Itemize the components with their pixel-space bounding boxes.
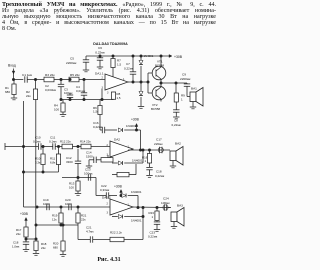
- svg-text:1,0мк: 1,0мк: [12, 244, 20, 248]
- wire bias left: [26, 238, 36, 240]
- svg-text:2: 2: [107, 202, 109, 205]
- svg-text:1: 1: [181, 98, 183, 102]
- svg-text:C24: C24: [163, 197, 169, 201]
- svg-text:+30В: +30В: [174, 55, 183, 59]
- svg-text:+30В: +30В: [131, 118, 140, 122]
- svg-text:0,33мк: 0,33мк: [100, 188, 110, 192]
- svg-text:3,3к: 3,3к: [35, 160, 41, 164]
- wire DA1 output: [128, 81, 148, 83]
- ground: [171, 226, 177, 228]
- svg-text:BA2: BA2: [175, 142, 181, 146]
- capacitor C23 0,22мк: [154, 221, 160, 223]
- svg-text:2: 2: [102, 76, 104, 79]
- svg-text:0,1мк: 0,1мк: [33, 140, 41, 144]
- wire feedback row DA1: [61, 99, 114, 101]
- resistor R9 1: [175, 83, 177, 93]
- svg-text:0,033мк: 0,033мк: [45, 88, 57, 92]
- svg-text:680: 680: [5, 90, 10, 94]
- svg-text:ВС558: ВС558: [151, 107, 160, 111]
- svg-text:0,22мк: 0,22мк: [95, 50, 105, 54]
- svg-text:Вход: Вход: [8, 64, 16, 68]
- wire ch3 input: [24, 206, 111, 208]
- svg-text:22к: 22к: [16, 232, 21, 236]
- svg-text:100: 100: [54, 108, 59, 112]
- svg-text:680: 680: [53, 245, 58, 249]
- svg-text:R3 22к: R3 22к: [45, 73, 55, 77]
- svg-text:6,8к: 6,8к: [50, 160, 56, 164]
- wire to DA2 output: [140, 130, 142, 150]
- svg-text:22к: 22к: [81, 217, 86, 221]
- wire output node ch1: [160, 82, 162, 84]
- svg-text:R14 22к: R14 22к: [80, 140, 91, 144]
- wire lower crossover return: [24, 171, 59, 173]
- svg-text:0,22мк: 0,22мк: [124, 67, 134, 71]
- svg-text:3300: 3300: [66, 160, 73, 164]
- wire bus A left: [23, 101, 25, 207]
- svg-text:0,22мк: 0,22мк: [155, 174, 165, 178]
- svg-text:1N4001: 1N4001: [131, 218, 142, 222]
- resistor R7 1,5: [112, 55, 114, 57]
- svg-text:1,5: 1,5: [117, 96, 121, 100]
- svg-text:1: 1: [152, 215, 154, 219]
- supply +30В low: [120, 195, 122, 197]
- svg-text:220мк: 220мк: [154, 142, 163, 146]
- svg-text:2200мк: 2200мк: [180, 77, 191, 81]
- resistor R15: [101, 158, 113, 162]
- ground: [97, 66, 103, 68]
- svg-text:3: 3: [107, 91, 109, 94]
- svg-text:4,7мк: 4,7мк: [86, 230, 94, 234]
- transistor VT2 ВС558: [152, 86, 166, 100]
- svg-text:C17: C17: [156, 138, 162, 142]
- wire ch3 feedback: [77, 225, 79, 240]
- wire input main: [14, 79, 24, 81]
- wire bus B from R2 down: [35, 100, 37, 240]
- svg-text:C5: C5: [70, 57, 74, 61]
- resistor R18b: [117, 172, 129, 176]
- svg-text:100мк: 100мк: [161, 201, 170, 205]
- svg-text:BA1: BA1: [191, 87, 197, 91]
- wire +30V rail: [86, 55, 170, 57]
- ground: [33, 253, 39, 255]
- svg-text:C6: C6: [98, 46, 102, 50]
- node input stub crossover: [4, 143, 6, 150]
- svg-text:3: 3: [107, 212, 109, 215]
- capacitor C8 0,22мк: [173, 109, 179, 111]
- ground: [83, 69, 89, 71]
- wire DA1 pin3 to feedback row: [101, 89, 103, 100]
- svg-text:DA1.1: DA1.1: [95, 72, 104, 76]
- svg-text:1500: 1500: [86, 154, 93, 158]
- ground: [190, 106, 196, 108]
- supply +30В mid: [136, 124, 138, 130]
- ground: [173, 116, 179, 118]
- wire c13 row: [62, 177, 96, 179]
- ground: [146, 175, 152, 177]
- svg-text:1N4001: 1N4001: [144, 54, 154, 58]
- svg-text:C8: C8: [174, 119, 178, 123]
- svg-text:C9: C9: [182, 73, 186, 77]
- wire: [35, 79, 37, 81]
- capacitor C18 0,22мк: [146, 166, 152, 168]
- supply +30В: [169, 55, 172, 58]
- svg-text:R22 2,2к: R22 2,2к: [110, 231, 123, 235]
- wire crossover row: [5, 146, 38, 148]
- svg-text:DA2: DA2: [114, 138, 120, 142]
- ground: [23, 249, 29, 251]
- svg-text:R5 22к: R5 22к: [70, 73, 80, 77]
- svg-text:1N4001: 1N4001: [131, 190, 142, 194]
- wire DA2 output: [131, 149, 133, 150]
- ground: [138, 106, 144, 108]
- svg-text:12к: 12к: [52, 217, 57, 221]
- svg-text:1,5: 1,5: [117, 63, 122, 67]
- svg-text:2200мк: 2200мк: [66, 61, 77, 65]
- svg-text:0,1мк: 0,1мк: [49, 140, 57, 144]
- capacitor C7 0,22мк: [132, 55, 134, 57]
- svg-text:1: 1: [145, 159, 147, 163]
- svg-text:BA3: BA3: [177, 203, 183, 207]
- wire DA2 fb stub: [107, 155, 109, 158]
- ground: [154, 229, 160, 231]
- svg-text:22к: 22к: [26, 94, 31, 98]
- svg-text:22к: 22к: [41, 246, 46, 250]
- svg-text:0,22мк: 0,22мк: [148, 235, 158, 239]
- ground: [60, 114, 66, 116]
- ground: [170, 165, 176, 167]
- svg-text:+30В: +30В: [20, 212, 29, 216]
- ground: [86, 165, 92, 167]
- wire VT base split: [147, 73, 149, 93]
- wire DA3 output: [132, 206, 170, 209]
- svg-text:DA1.2: DA1.2: [102, 195, 111, 199]
- wire to DA3 row: [95, 178, 97, 196]
- ground: [11, 97, 17, 99]
- svg-text:100: 100: [69, 185, 74, 189]
- ground: [75, 193, 81, 195]
- svg-text:C7: C7: [126, 62, 130, 66]
- svg-text:+30В: +30В: [114, 184, 123, 188]
- wire bias row: [36, 224, 78, 226]
- svg-text:0,22мк: 0,22мк: [93, 125, 103, 129]
- svg-text:R12 22к: R12 22к: [60, 140, 71, 144]
- resistor R8 1,5: [111, 92, 115, 99]
- diode VD2 1N4001: [140, 82, 142, 91]
- ground: [60, 254, 66, 256]
- svg-text:0,22мк: 0,22мк: [172, 123, 182, 127]
